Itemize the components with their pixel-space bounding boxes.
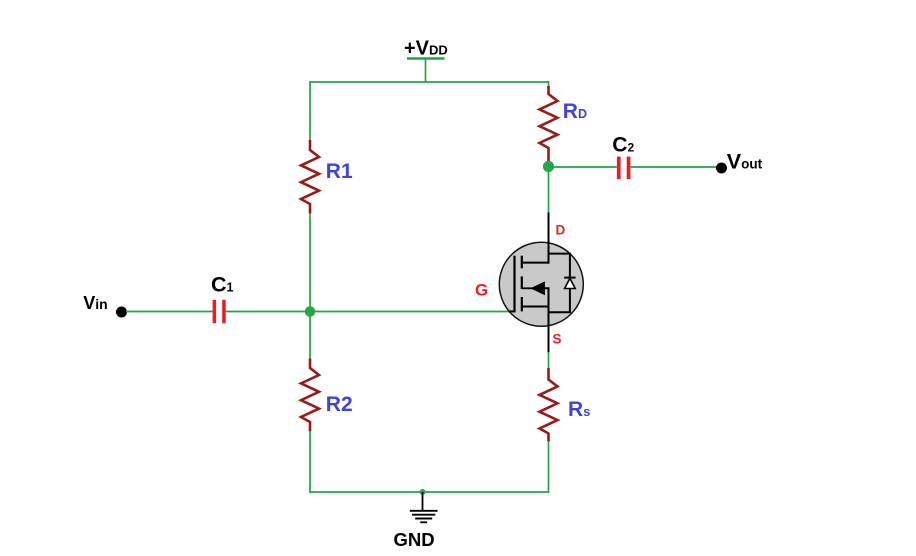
node input (junction dot) <box>305 306 316 317</box>
svg-text:C2: C2 <box>612 133 634 156</box>
terminal Vout <box>716 149 763 173</box>
resistor R2 <box>301 359 353 432</box>
wire right vertical top <box>548 81 550 87</box>
svg-text:Rs: Rs <box>568 398 590 421</box>
power symbol +VDD <box>404 38 448 83</box>
wire input right segment <box>225 311 310 313</box>
drain stub <box>522 262 549 264</box>
svg-text:Vout: Vout <box>727 149 763 173</box>
ground <box>394 492 438 550</box>
wire gate <box>310 311 509 313</box>
transistor Q1 (N-MOSFET) <box>475 212 583 352</box>
wire drain node to mosfet <box>548 167 550 217</box>
wire input left segment <box>126 311 213 313</box>
capacitor C2 <box>612 133 634 179</box>
svg-text:+VDD: +VDD <box>404 38 448 60</box>
svg-text:C1: C1 <box>211 273 234 297</box>
channel dash 3 <box>521 297 523 311</box>
wire left vertical lower <box>309 431 311 493</box>
capacitor C1 <box>211 273 234 324</box>
svg-text:G: G <box>475 281 488 300</box>
wire Rs to bottom rail <box>548 441 550 493</box>
body circle <box>499 242 583 326</box>
channel dash 1 <box>521 256 523 269</box>
resistor Rs <box>540 368 591 442</box>
body stub with arrow <box>522 287 533 289</box>
resistor RD <box>540 86 588 161</box>
svg-text:R2: R2 <box>326 393 353 416</box>
wire bottom rail <box>310 491 549 493</box>
svg-text:Vin: Vin <box>83 293 107 313</box>
resistor R1 <box>301 140 353 214</box>
svg-text:S: S <box>553 332 562 347</box>
svg-text:GND: GND <box>394 529 435 550</box>
wire top rail <box>310 81 549 83</box>
wire output left segment <box>549 166 617 168</box>
source branch to diode <box>549 288 570 312</box>
node drain (junction dot) <box>543 161 554 172</box>
svg-text:RD: RD <box>563 100 587 123</box>
body diode <box>565 278 576 288</box>
drain lead <box>548 212 550 263</box>
gate electrode line <box>513 256 515 313</box>
terminal Vin <box>83 293 127 318</box>
node ground tap <box>420 489 426 495</box>
gate stub <box>509 310 515 312</box>
svg-text:R1: R1 <box>326 160 353 183</box>
source stub <box>522 306 549 308</box>
wire output right segment <box>631 166 722 168</box>
svg-text:D: D <box>556 223 566 238</box>
wire left vertical upper <box>309 81 311 141</box>
channel dash 2 <box>521 276 523 289</box>
source lead <box>548 307 550 353</box>
wire source to Rs <box>548 352 550 369</box>
wire left vertical middle <box>309 213 311 359</box>
diode branch to drain <box>549 254 570 278</box>
